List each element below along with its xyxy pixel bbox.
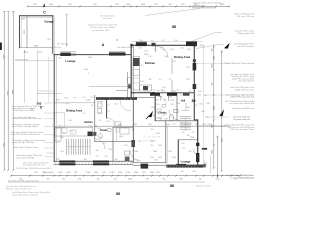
svg-text:30: 30 [172, 24, 177, 29]
svg-text:910: 910 [163, 50, 166, 52]
svg-text:2100: 2100 [212, 124, 214, 128]
svg-text:2340: 2340 [199, 104, 203, 106]
svg-text:910: 910 [97, 178, 100, 180]
svg-text:cavity 2100 100mm rwp joists: cavity 2100 100mm rwp joists [12, 193, 38, 196]
svg-text:30: 30 [116, 191, 121, 196]
svg-text:2340: 2340 [133, 124, 137, 126]
svg-text:910: 910 [107, 105, 110, 107]
svg-text:875: 875 [74, 172, 77, 174]
svg-text:875: 875 [181, 4, 184, 6]
svg-text:910: 910 [234, 178, 237, 180]
svg-text:2340: 2340 [176, 103, 180, 105]
svg-text:910: 910 [182, 143, 185, 145]
svg-text:Kitchen: Kitchen [84, 121, 93, 124]
svg-text:2340: 2340 [153, 151, 157, 153]
svg-text:100: 100 [157, 118, 160, 120]
svg-text:875: 875 [139, 141, 142, 143]
svg-text:2340: 2340 [213, 56, 215, 60]
svg-text:100: 100 [102, 172, 105, 174]
svg-text:760: 760 [212, 83, 214, 86]
svg-text:2,340: 2,340 [184, 95, 189, 97]
svg-text:100: 100 [189, 151, 192, 153]
svg-text:100: 100 [126, 157, 129, 159]
svg-text:910: 910 [71, 131, 74, 133]
svg-text:1210: 1210 [212, 64, 214, 68]
svg-text:875: 875 [119, 124, 122, 126]
svg-text:875: 875 [107, 111, 110, 113]
svg-text:875: 875 [153, 95, 156, 97]
svg-text:875: 875 [109, 98, 112, 100]
svg-text:1200: 1200 [21, 19, 25, 21]
svg-text:2,340: 2,340 [62, 133, 66, 135]
svg-text:Dining Area: Dining Area [66, 108, 83, 112]
svg-text:2340: 2340 [170, 49, 174, 51]
svg-text:910: 910 [98, 128, 101, 130]
svg-text:875: 875 [153, 90, 156, 92]
svg-text:30: 30 [170, 183, 175, 188]
svg-text:2340: 2340 [124, 145, 128, 147]
svg-text:C: C [43, 10, 46, 14]
svg-text:FFL dpc conc brick floor over: FFL dpc conc brick floor over [6, 188, 32, 190]
svg-text:2,340: 2,340 [86, 100, 91, 102]
svg-text:875: 875 [161, 90, 164, 92]
svg-text:lintel 75mm 100mm 75mm: lintel 75mm 100mm 75mm [14, 146, 38, 149]
svg-text:2340: 2340 [141, 4, 145, 6]
svg-text:2340: 2340 [128, 178, 132, 180]
svg-text:1200: 1200 [166, 124, 170, 126]
svg-text:lintel FFL rwp floor: lintel FFL rwp floor [238, 45, 255, 48]
svg-text:910: 910 [103, 143, 106, 145]
svg-text:2,340: 2,340 [164, 56, 168, 58]
svg-text:610: 610 [25, 52, 28, 54]
svg-text:1200: 1200 [88, 57, 92, 59]
svg-text:2,340: 2,340 [86, 172, 91, 174]
svg-text:910: 910 [169, 79, 172, 81]
svg-text:1200: 1200 [78, 178, 82, 180]
svg-text:910: 910 [96, 156, 99, 158]
svg-text:100: 100 [181, 171, 184, 173]
svg-text:1200: 1200 [119, 136, 123, 138]
svg-text:2340: 2340 [114, 104, 118, 106]
svg-text:910: 910 [212, 49, 214, 52]
svg-text:100: 100 [34, 172, 37, 174]
svg-text:conc floor step 100mm 900: conc floor step 100mm 900 [229, 102, 255, 105]
svg-text:450: 450 [168, 4, 171, 6]
svg-text:875: 875 [177, 90, 180, 92]
svg-text:875: 875 [62, 178, 65, 180]
svg-text:100: 100 [147, 87, 150, 89]
svg-text:wall joists wall 900 conc: wall joists wall 900 conc [232, 107, 254, 110]
svg-text:Garage: Garage [44, 19, 54, 23]
svg-text:2,340: 2,340 [58, 172, 63, 174]
svg-text:1200: 1200 [118, 172, 122, 174]
svg-text:910: 910 [173, 124, 176, 126]
svg-text:1200: 1200 [148, 56, 152, 58]
svg-text:100: 100 [206, 117, 209, 119]
svg-text:2,340: 2,340 [110, 172, 115, 174]
svg-text:floor min rwp: floor min rwp [193, 5, 205, 7]
svg-text:FFL conc 1200 svp: FFL conc 1200 svp [237, 16, 255, 18]
svg-text:875: 875 [67, 104, 70, 106]
svg-text:1200: 1200 [172, 91, 176, 93]
svg-text:875: 875 [156, 172, 159, 174]
svg-text:2,340: 2,340 [84, 69, 89, 71]
svg-text:2,340: 2,340 [126, 172, 131, 174]
svg-text:875: 875 [187, 67, 190, 69]
svg-text:1200: 1200 [216, 178, 220, 180]
svg-text:910: 910 [195, 105, 198, 107]
svg-text:910: 910 [159, 79, 162, 81]
svg-text:910: 910 [155, 160, 158, 162]
svg-text:100: 100 [182, 132, 185, 134]
svg-text:1200: 1200 [172, 157, 176, 159]
svg-text:100: 100 [139, 48, 142, 50]
svg-text:2340: 2340 [49, 4, 53, 6]
svg-text:2,340: 2,340 [206, 103, 210, 105]
svg-text:2,340: 2,340 [201, 111, 205, 113]
svg-text:Lounge: Lounge [65, 59, 76, 63]
svg-text:875: 875 [183, 148, 186, 150]
svg-text:Dining Area: Dining Area [174, 55, 191, 59]
svg-text:2,340: 2,340 [168, 151, 172, 153]
svg-text:1200: 1200 [172, 61, 176, 63]
svg-text:100: 100 [187, 135, 190, 137]
svg-text:875: 875 [57, 159, 60, 161]
svg-text:100: 100 [61, 137, 64, 139]
svg-text:6215: 6215 [221, 138, 223, 142]
svg-text:over 100mm step dpc gulley: over 100mm step dpc gulley [12, 125, 39, 128]
svg-text:min brick step FFL cavity min: min brick step FFL cavity min insul [8, 180, 39, 183]
svg-text:2100 75mm over cavity: 2100 75mm over cavity [13, 109, 35, 112]
svg-text:FFL 900 rwp: FFL 900 rwp [57, 42, 68, 45]
svg-text:100: 100 [180, 95, 183, 97]
svg-text:100: 100 [181, 48, 184, 50]
svg-text:875: 875 [50, 172, 53, 174]
svg-text:over gulley blockwk over: over gulley blockwk over [23, 165, 45, 167]
svg-text:875: 875 [132, 129, 135, 131]
svg-text:875: 875 [142, 172, 145, 174]
svg-text:1200 over min floor 75mm: 1200 over min floor 75mm [230, 128, 254, 131]
svg-text:910: 910 [202, 45, 205, 47]
svg-text:100mm gulley over: 100mm gulley over [238, 178, 255, 180]
svg-text:min floor: min floor [44, 171, 52, 174]
svg-text:910: 910 [99, 137, 102, 139]
svg-text:2340: 2340 [134, 172, 138, 174]
svg-text:cavity 900 dpc 1200 dpc: cavity 900 dpc 1200 dpc [12, 141, 34, 144]
svg-text:2340: 2340 [170, 100, 174, 102]
svg-text:brick dpc: brick dpc [54, 47, 61, 49]
svg-text:svp step 75mm cavity: svp step 75mm cavity [235, 30, 254, 33]
svg-text:910: 910 [89, 126, 92, 128]
svg-text:450: 450 [68, 4, 71, 6]
svg-text:2,340: 2,340 [158, 145, 162, 147]
svg-text:Kitchen: Kitchen [145, 61, 156, 65]
svg-text:450: 450 [154, 4, 157, 6]
svg-text:100: 100 [204, 95, 207, 97]
svg-text:875: 875 [187, 79, 190, 81]
svg-text:875: 875 [141, 65, 144, 67]
svg-text:100: 100 [156, 100, 159, 102]
svg-text:gulley 2100 min conc: gulley 2100 min conc [235, 89, 254, 91]
svg-text:303: 303 [37, 101, 42, 105]
svg-text:875: 875 [59, 126, 62, 128]
svg-text:910: 910 [157, 91, 160, 93]
svg-text:100: 100 [96, 150, 99, 152]
svg-text:svp joists step min: svp joists step min [233, 118, 250, 121]
svg-text:2,340: 2,340 [66, 172, 71, 174]
svg-text:2 x 47 x 150 C24: 2 x 47 x 150 C24 [144, 137, 161, 139]
svg-text:2,340: 2,340 [144, 51, 148, 53]
svg-text:blockwk step 900 brick insul o: blockwk step 900 brick insul over [12, 117, 42, 120]
svg-text:2410: 2410 [38, 52, 42, 54]
svg-text:1890: 1890 [212, 150, 214, 154]
svg-text:875: 875 [91, 97, 94, 99]
svg-text:875: 875 [181, 124, 184, 126]
svg-text:875: 875 [164, 100, 167, 102]
svg-text:joists at 400 crs: joists at 400 crs [142, 139, 157, 142]
svg-text:100: 100 [91, 105, 94, 107]
svg-text:875: 875 [57, 100, 60, 102]
svg-text:svp joists cavity: svp joists cavity [15, 58, 28, 61]
svg-text:875: 875 [74, 98, 77, 100]
svg-text:over lintel: over lintel [103, 17, 112, 20]
svg-text:blockwk dpc conc: blockwk dpc conc [39, 91, 53, 93]
svg-text:450: 450 [115, 4, 118, 6]
svg-text:2,340: 2,340 [108, 149, 112, 151]
svg-text:over min rwp min: over min rwp min [238, 80, 254, 83]
svg-text:30: 30 [192, 99, 196, 103]
svg-text:875: 875 [171, 104, 174, 106]
svg-text:875: 875 [189, 91, 192, 93]
svg-text:910: 910 [136, 160, 139, 162]
svg-text:910: 910 [157, 104, 160, 106]
svg-text:100: 100 [149, 124, 152, 126]
svg-text:step cavity step 900: step cavity step 900 [16, 156, 35, 159]
svg-text:1200: 1200 [150, 157, 154, 159]
svg-text:910: 910 [154, 49, 157, 51]
svg-text:100mm FFL over over rwp: 100mm FFL over over rwp [230, 96, 255, 99]
svg-text:2,340: 2,340 [188, 124, 192, 126]
svg-text:100: 100 [59, 58, 62, 60]
svg-text:100: 100 [114, 178, 117, 180]
svg-text:450: 450 [93, 4, 96, 6]
svg-text:875: 875 [33, 4, 36, 6]
svg-text:2340: 2340 [198, 91, 202, 93]
svg-text:cavity 2100 2100 insul lintel: cavity 2100 2100 insul lintel insul [10, 133, 40, 136]
svg-text:2340: 2340 [179, 178, 183, 180]
svg-text:875: 875 [151, 145, 154, 147]
svg-text:910: 910 [124, 98, 127, 100]
svg-text:875: 875 [83, 97, 86, 99]
svg-text:Hall: Hall [181, 99, 186, 102]
svg-text:2340: 2340 [164, 119, 168, 121]
svg-text:2340: 2340 [156, 133, 160, 135]
svg-text:2340: 2340 [68, 120, 72, 122]
svg-text:910: 910 [99, 120, 102, 122]
svg-text:910: 910 [192, 132, 195, 134]
svg-text:2,340: 2,340 [187, 49, 191, 51]
svg-text:875: 875 [48, 39, 51, 41]
svg-text:100: 100 [84, 159, 87, 161]
svg-text:1200: 1200 [134, 151, 138, 153]
svg-text:875: 875 [149, 79, 152, 81]
svg-text:875: 875 [146, 178, 149, 180]
svg-text:2,340: 2,340 [60, 151, 64, 153]
svg-text:1200 rwp brick 900: 1200 rwp brick 900 [237, 33, 255, 35]
svg-text:2340: 2340 [126, 4, 130, 6]
svg-text:min lintel floor 3415: min lintel floor 3415 [92, 29, 110, 32]
svg-text:1200: 1200 [197, 95, 201, 97]
svg-text:910: 910 [83, 113, 86, 115]
svg-text:gulley over 75mm: gulley over 75mm [196, 185, 211, 188]
svg-text:2340: 2340 [190, 137, 194, 139]
svg-text:900 1200 dpc 1200 900 insul in: 900 1200 dpc 1200 900 insul insul 3415 [16, 168, 52, 170]
svg-text:Cloaks: Cloaks [100, 130, 108, 132]
svg-text:A: A [102, 43, 105, 47]
svg-text:100: 100 [115, 159, 118, 161]
svg-text:4160: 4160 [213, 106, 215, 110]
svg-text:910: 910 [151, 129, 154, 131]
svg-text:2340: 2340 [98, 113, 102, 115]
svg-text:2340: 2340 [151, 107, 155, 109]
svg-text:1200: 1200 [192, 171, 196, 173]
svg-text:100mm joists blockwk gulley 90: 100mm joists blockwk gulley 900 [88, 24, 118, 27]
svg-text:910: 910 [187, 107, 190, 109]
svg-text:conc insul: conc insul [46, 152, 55, 154]
svg-text:2340: 2340 [94, 172, 98, 174]
svg-text:875: 875 [47, 178, 50, 180]
svg-text:2,340: 2,340 [158, 157, 162, 159]
svg-text:910: 910 [163, 178, 166, 180]
svg-text:1200: 1200 [104, 156, 108, 158]
svg-text:875: 875 [145, 91, 148, 93]
svg-text:2,340: 2,340 [64, 98, 68, 100]
svg-text:5010: 5010 [24, 30, 26, 34]
svg-text:100: 100 [199, 178, 202, 180]
svg-text:xxx: xxx [196, 147, 199, 149]
svg-text:1200: 1200 [106, 121, 110, 123]
svg-text:2340: 2340 [140, 81, 144, 83]
svg-text:2340: 2340 [150, 172, 154, 174]
svg-text:Lounge: Lounge [181, 159, 191, 163]
svg-text:875: 875 [99, 103, 102, 105]
